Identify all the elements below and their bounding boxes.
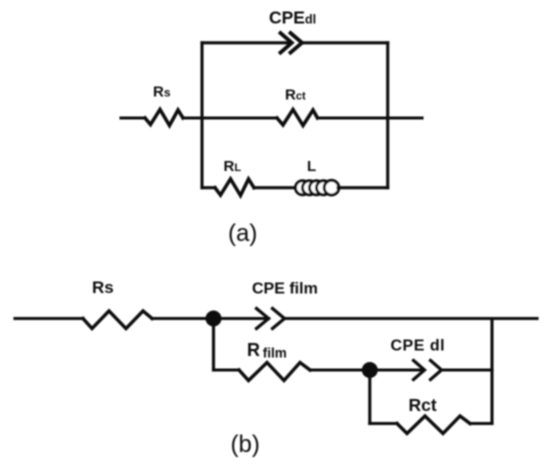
resistor Rs (b) — [83, 311, 152, 329]
wire: bottom branch left segment (a) — [202, 186, 215, 189]
wire: main line from Rs to CPEfilm (b) — [152, 317, 269, 320]
svg-text:(b): (b) — [231, 431, 260, 458]
resistor Rfilm — [239, 363, 310, 381]
wire: left vertical of parallel box (a) — [200, 43, 203, 188]
wire: top branch right segment (a) — [302, 41, 388, 44]
svg-text:Rct: Rct — [285, 87, 306, 104]
wire: lower branch lead to Rfilm — [214, 368, 240, 371]
CPE CPEfilm chevron 2 — [273, 309, 285, 329]
resistor Rct (b) — [397, 416, 470, 434]
node junction B — [362, 362, 378, 378]
wire: bottom branch middle segment (a) — [254, 186, 298, 189]
CPE CPEdl(b) chevron 1 — [414, 361, 425, 380]
resistor Rs (a) — [145, 110, 183, 126]
wire: middle conductor left segment (a) — [183, 116, 277, 119]
wire: lower branch from Rfilm to junction B — [310, 368, 424, 371]
wire: Rct branch to right vertical (b) — [470, 422, 492, 425]
wire: top branch left segment (a) — [202, 41, 291, 44]
svg-text:(a): (a) — [228, 220, 257, 247]
wire: middle conductor right segment + right lead (a) — [318, 116, 423, 119]
wire: main line right segment (b) — [285, 317, 538, 320]
resistor Rct (a) — [277, 110, 318, 126]
svg-text:RL: RL — [224, 158, 242, 175]
svg-text:CPE film: CPE film — [252, 280, 318, 297]
node junction A — [206, 311, 222, 327]
svg-text:CPEdl: CPEdl — [269, 7, 316, 27]
svg-text:Rs: Rs — [153, 84, 171, 101]
svg-text:Rs: Rs — [92, 278, 114, 297]
wire: left lead of circuit (b) — [15, 317, 83, 320]
resistor RL — [215, 179, 254, 196]
svg-text:R film: R film — [247, 340, 287, 361]
wire: bottom branch right segment (a) — [338, 186, 388, 189]
svg-text:Rct: Rct — [409, 395, 437, 415]
CPE CPEdl chevron 2 — [291, 33, 303, 53]
wire: lower branch right of CPEdl (b) — [442, 368, 493, 371]
CPE CPEfilm chevron 1 — [257, 309, 269, 329]
CPE CPEdl chevron 1 — [281, 33, 292, 53]
wire: drop from junction B — [368, 370, 371, 424]
wire: right vertical of (b) — [490, 319, 493, 424]
inductor L — [296, 180, 339, 195]
svg-text:L: L — [307, 158, 316, 175]
wire: right vertical of parallel box (a) — [386, 43, 389, 188]
svg-text:CPE dl: CPE dl — [391, 338, 446, 355]
wire: Rct branch lead (b) — [370, 422, 397, 425]
wire: left lead of circuit (a) — [121, 116, 145, 119]
wire: drop from junction A — [212, 319, 215, 371]
CPE CPEdl(b) chevron 2 — [431, 361, 442, 380]
